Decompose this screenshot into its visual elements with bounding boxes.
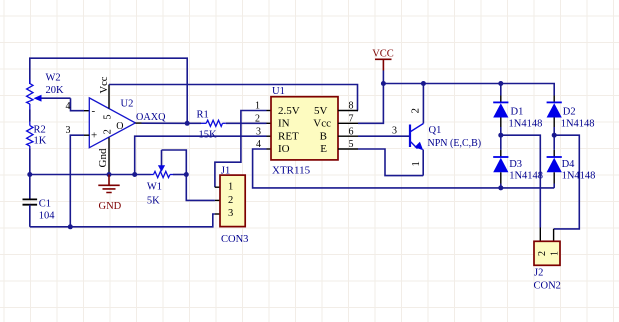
svg-text:C1: C1 (39, 199, 51, 210)
svg-text:-: - (92, 105, 96, 117)
junction RET branch (132, 172, 137, 177)
J1 pin 3 stub (215, 213, 220, 215)
resistor W1 (potentiometer body) 5K (147, 171, 186, 206)
wire: D2/D4 node to J2 pin 1 (554, 135, 580, 229)
svg-text:3: 3 (392, 126, 397, 137)
wire: op-amp output (142, 122, 188, 124)
svg-text:Q1: Q1 (429, 125, 442, 136)
svg-text:D4: D4 (562, 159, 576, 170)
ground rail wire (30, 174, 151, 176)
wire: U1 pin 6 (B) to Q1 base (358, 135, 409, 137)
J1 pin 1 stub (215, 186, 220, 188)
wire: op-amp non-inverting input branch (70, 135, 84, 227)
svg-text:2: 2 (228, 195, 233, 206)
svg-text:IN: IN (278, 118, 290, 130)
svg-text:RET: RET (278, 130, 299, 142)
svg-text:XTR115: XTR115 (272, 164, 311, 176)
junction collector node (421, 81, 426, 86)
junction D2/D4 (552, 133, 557, 138)
wire: W1 wiper loop to rail (162, 150, 187, 175)
op-amp U2 OAXQ triangle (89, 98, 166, 148)
svg-text:15K: 15K (199, 129, 218, 140)
resistor R2 1K (27, 122, 47, 149)
svg-text:W2: W2 (46, 73, 61, 84)
wire: Q1 emitter to U1 pin 5 (E) (358, 149, 423, 176)
svg-text:IO: IO (278, 143, 290, 155)
svg-text:D3: D3 (509, 159, 522, 170)
pin 3 stub of op-amp (84, 134, 89, 136)
svg-text:20K: 20K (46, 85, 65, 96)
wire: VCC stem to junction (382, 71, 384, 84)
junction IO rail under D3 (498, 185, 503, 190)
svg-text:3: 3 (228, 208, 233, 219)
svg-text:Gnd: Gnd (97, 148, 109, 167)
wire: VCC rail to diodes (383, 84, 554, 96)
svg-text:O: O (116, 121, 123, 132)
svg-text:R1: R1 (197, 109, 209, 120)
svg-text:1: 1 (410, 161, 422, 167)
svg-text:1: 1 (228, 182, 233, 193)
wire: op-amp 5V supply to U1 pin 8 (109, 85, 358, 111)
svg-text:J1: J1 (221, 165, 230, 176)
svg-text:D1: D1 (511, 106, 524, 117)
diode D1 1N4148 (493, 84, 542, 136)
svg-text:OAXQ: OAXQ (136, 112, 166, 123)
svg-text:5V: 5V (314, 105, 328, 117)
IC U1 XTR115 (271, 86, 338, 177)
junction VCC node (381, 81, 386, 86)
diode D3 1N4148 (493, 135, 543, 188)
svg-text:U2: U2 (121, 99, 134, 110)
junction bottom net (68, 224, 73, 229)
svg-text:CON3: CON3 (221, 234, 248, 245)
svg-text:NPN (E,C,B): NPN (E,C,B) (428, 138, 482, 149)
pin 4 stub of U1 (267, 148, 272, 150)
svg-text:B: B (320, 130, 327, 142)
ground symbol GND (98, 175, 121, 212)
op-amp Vcc pin (108, 85, 110, 109)
junction D1/D3 (498, 133, 503, 138)
svg-text:R2: R2 (34, 124, 46, 135)
pin 3 stub of U1 (267, 135, 272, 137)
wire: D1/D3 node to J2 pin 2 (501, 135, 541, 227)
svg-text:W1: W1 (147, 181, 162, 192)
svg-text:1N4148: 1N4148 (509, 118, 543, 129)
pin 4 stub of op-amp (84, 110, 89, 112)
svg-text:2: 2 (103, 129, 114, 134)
wire: W2 to R2 segment (29, 110, 31, 122)
svg-text:1K: 1K (34, 136, 47, 147)
J2 pin stubs (540, 228, 553, 242)
svg-text:1: 1 (255, 101, 260, 112)
wire: U1 pin 1 (2.5V) to J1 pin 1 (215, 111, 267, 188)
wire: R2 to ground rail (29, 149, 31, 175)
pin 1 stub of U1 (267, 110, 272, 112)
connector J2 CON2 (534, 241, 561, 291)
svg-text:4: 4 (256, 139, 261, 150)
svg-text:J2: J2 (534, 267, 543, 278)
junction output node (185, 121, 190, 126)
svg-text:3: 3 (66, 125, 71, 136)
svg-text:Vcc: Vcc (313, 118, 331, 130)
svg-text:D2: D2 (563, 106, 576, 117)
svg-text:U1: U1 (272, 86, 285, 97)
wire: bottom net C1/op-amp+ to J1 pin 3 (30, 214, 215, 227)
svg-text:5K: 5K (147, 196, 160, 207)
capacitor C1 104 (23, 175, 56, 227)
power VCC symbol (372, 48, 394, 70)
svg-text:1: 1 (550, 251, 561, 256)
resistor R1 15K (187, 109, 266, 140)
W2 wiper arrow (34, 95, 71, 102)
svg-text:VCC: VCC (372, 48, 394, 59)
svg-text:+: + (91, 130, 97, 142)
junction gnd pin (107, 172, 112, 177)
wire: VCC down to U1 pin 7 (358, 84, 383, 124)
svg-text:Vcc: Vcc (99, 76, 110, 93)
diode D2 1N4148 (547, 96, 595, 136)
diode D4 1N4148 (547, 135, 596, 188)
U1 right pin stubs (338, 111, 358, 150)
svg-text:104: 104 (39, 211, 56, 222)
svg-text:4: 4 (66, 101, 71, 112)
svg-text:2: 2 (255, 114, 260, 125)
svg-text:2: 2 (537, 251, 548, 256)
resistor W2 (potentiometer body) 20K (27, 73, 64, 110)
wire: node to J1 pin 2 (186, 175, 215, 201)
svg-text:1N4148: 1N4148 (509, 171, 543, 182)
svg-text:5: 5 (103, 115, 114, 120)
svg-text:CON2: CON2 (534, 280, 561, 291)
junction D1 top (498, 81, 503, 86)
junction rail left (27, 172, 32, 177)
svg-text:2.5V: 2.5V (278, 105, 300, 117)
svg-text:GND: GND (99, 201, 122, 212)
connector J1 CON3 (220, 165, 248, 245)
wire: feedback top wire from output junction up and left (30, 58, 187, 123)
svg-text:1N4148: 1N4148 (561, 118, 595, 129)
svg-text:2: 2 (410, 108, 422, 114)
op-amp Gnd pin (108, 138, 110, 175)
svg-text:E: E (320, 143, 327, 155)
junction W1/J1 node (184, 172, 189, 177)
U1 right pin numbers and stubs (349, 101, 354, 151)
svg-text:3: 3 (256, 126, 261, 137)
transistor Q1 NPN (392, 84, 481, 176)
wire: W2 wiper to op-amp inverting input (71, 98, 85, 111)
W1 wiper arrow (158, 150, 165, 172)
J1 pin 2 stub (215, 199, 220, 201)
op-amp output pin stub (135, 122, 141, 124)
wire: U1 pin 4 (IO) down and right to diode bottom rail (253, 149, 555, 188)
pin 2 stub of U1 (267, 122, 272, 124)
wire: RET net from ground rail to U1 pin 3 (135, 136, 267, 174)
U1 left pin numbers (255, 101, 261, 151)
